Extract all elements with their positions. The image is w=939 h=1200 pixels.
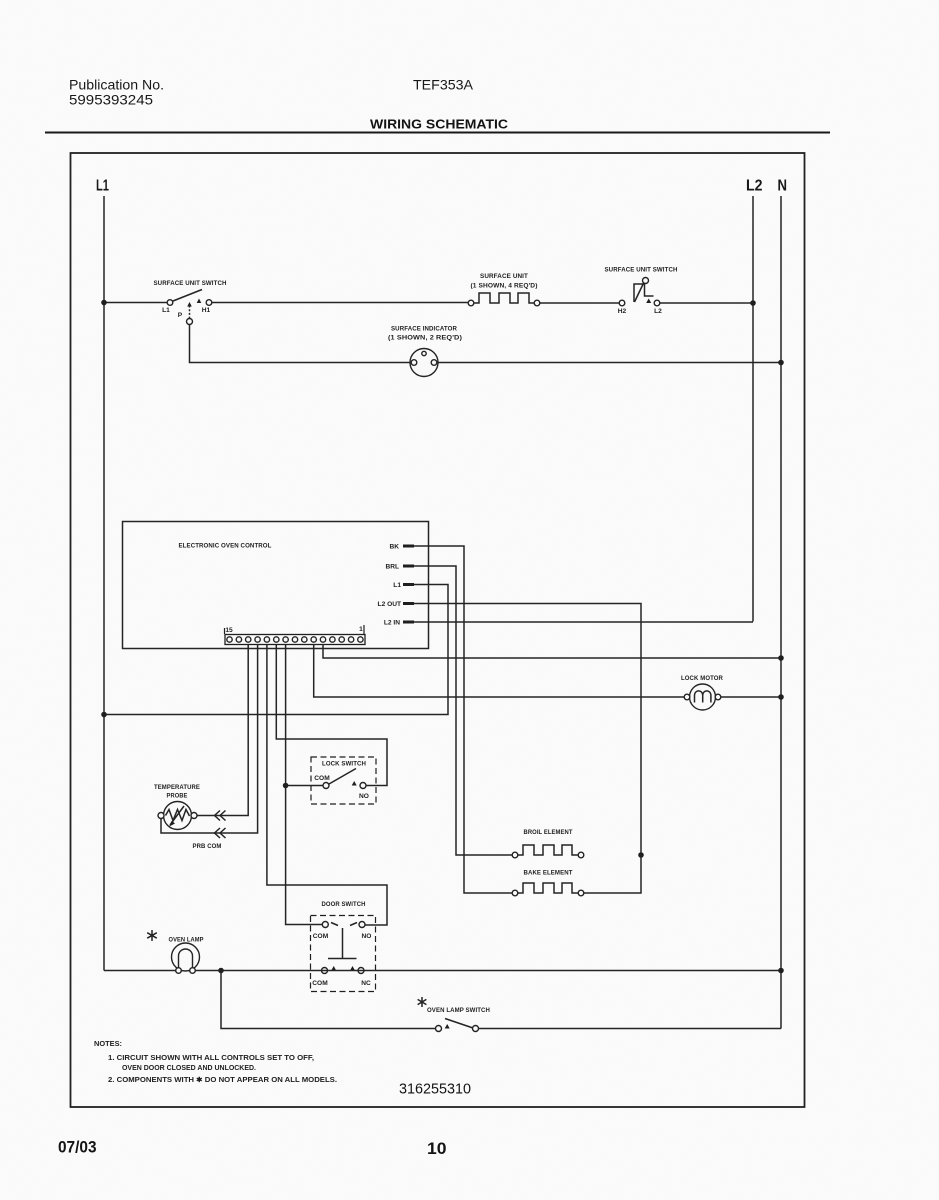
surface unit switch SW1 blade and poles: [173, 290, 202, 302]
junction at lock switch COM branch: [283, 783, 289, 789]
door switch pin COM upper: [322, 922, 328, 928]
probe connector chevrons upper: [215, 811, 226, 821]
wire BK to bake element: [414, 546, 512, 893]
wire top row from L1 bus to surface unit switch: [104, 302, 167, 304]
wire lock motor to N bus: [721, 696, 781, 698]
junction on L1 bus at top row: [101, 300, 107, 306]
bake element: [518, 883, 578, 893]
electronic oven control U1 box: [123, 522, 429, 649]
junction and drop to oven lamp switch: [218, 968, 224, 974]
junction on L1 bus at control feed: [101, 712, 107, 718]
wire L2 vertical bus: [752, 196, 754, 622]
wire to oven lamp switch: [221, 971, 436, 1029]
wire H1 to surface unit element: [212, 302, 468, 304]
lock switch blade: [329, 769, 356, 785]
wire N vertical bus: [780, 196, 782, 1029]
wire oven lamp switch to N bus: [479, 1028, 782, 1030]
surface unit heating element: [474, 293, 534, 303]
surface indicator lamp: [410, 349, 438, 377]
P1 pin circles 15..1: [227, 637, 363, 642]
probe connector chevrons lower: [215, 828, 226, 838]
wire pin4 to temperature probe common lead: [161, 645, 258, 834]
door switch top contact marks: [331, 923, 357, 926]
U1 terminal strip P1: [225, 635, 365, 645]
junction at broil/bake right side: [638, 852, 644, 858]
wire pin3 to temperature probe (right lead): [197, 645, 248, 816]
wire pin11 to N bus: [323, 645, 781, 659]
pin H1 of SW1: [206, 300, 212, 306]
wire P pole down to surface indicator: [190, 325, 411, 363]
wire pin7 to lock switch COM and door switch COM: [286, 645, 322, 925]
door switch pin NO: [359, 922, 365, 928]
lock switch pin COM: [323, 783, 329, 789]
broil element: [518, 845, 578, 855]
oven lamp switch asterisk: [418, 997, 427, 1007]
door switch pin NC: [358, 968, 364, 974]
wire BRL to broil element: [414, 566, 512, 855]
pin L2 of SW2: [654, 300, 660, 306]
wire L1 pin down to L1 bus row: [104, 585, 448, 715]
junction on N bus at pin11 wire: [778, 655, 784, 661]
wire SW2 to L2 bus: [660, 302, 753, 304]
wire element to surface unit switch SW2: [540, 302, 619, 304]
wire L2 OUT down to elements: [414, 604, 641, 856]
door switch S3 dashed enclosure: [311, 916, 376, 992]
wire L1 vertical bus: [103, 196, 105, 971]
door switch plunger: [328, 928, 357, 959]
pin P of SW1: [187, 319, 193, 325]
junction on L2 bus: [750, 300, 756, 306]
oven lamp asterisk: [147, 930, 157, 941]
oven lamp bus wire L1 corner to N bus: [104, 970, 781, 972]
lock switch S2 dashed enclosure: [311, 757, 376, 804]
wire pin5 to door switch NO: [267, 645, 387, 926]
junction on N bus at indicator wire: [778, 360, 784, 366]
oven lamp DS1: [172, 943, 200, 971]
junction on N bus at lamp wire: [778, 968, 784, 974]
temperature probe RT1: [164, 802, 192, 830]
lock switch pin NO: [360, 783, 366, 789]
wire surface indicator to N bus: [437, 362, 781, 364]
wire pin6 to lock switch NO: [276, 645, 387, 786]
door switch lower contact triangles: [331, 966, 355, 971]
wire L2 IN to L2 bus: [414, 621, 753, 623]
oven lamp switch S4: [445, 1019, 473, 1029]
surface unit switch SW2 flag and blade: [634, 284, 654, 302]
junction on N bus at lock motor: [778, 694, 784, 700]
pin L1 of SW1: [167, 300, 173, 306]
pin H2 of SW2: [619, 300, 625, 306]
lock motor M1: [690, 684, 716, 710]
door switch pin COM lower: [322, 968, 328, 974]
wire pin10 to lock motor: [314, 645, 684, 698]
